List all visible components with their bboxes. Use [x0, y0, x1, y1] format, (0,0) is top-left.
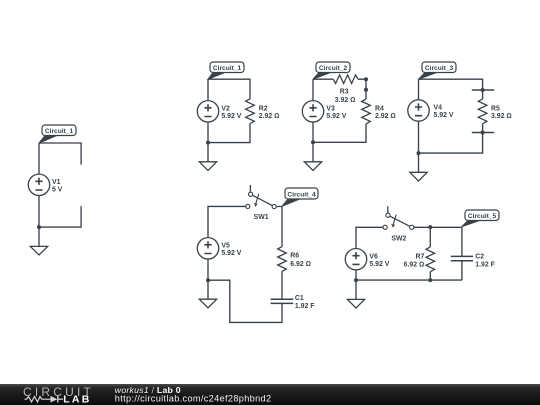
label callout Circuit_1 (A): [39, 125, 76, 143]
label callout Circuit_1 (B): [208, 62, 244, 79]
node: Circuit B ground junction: [206, 141, 210, 145]
svg-text:V1: V1: [52, 179, 61, 186]
svg-text:SW2: SW2: [391, 236, 406, 243]
svg-text:Circuit_1: Circuit_1: [45, 128, 74, 135]
ground (Circuit C): [304, 162, 321, 171]
svg-text:V5: V5: [221, 242, 230, 249]
svg-text:R5: R5: [491, 105, 500, 112]
node: Circuit C ground junction: [311, 140, 315, 144]
svg-text:5.92 V: 5.92 V: [369, 261, 389, 268]
node: Circuit A ground junction: [37, 225, 41, 229]
svg-text:6.92 Ω: 6.92 Ω: [290, 261, 311, 268]
node: Circuit F junctions: [354, 225, 432, 282]
ground (Circuit A): [30, 246, 47, 255]
svg-text:2.92 Ω: 2.92 Ω: [375, 113, 396, 120]
logo resistor+diode glyph: [25, 396, 64, 403]
svg-text:3.92 Ω: 3.92 Ω: [335, 97, 356, 104]
wire: stub at R5 bottom: [472, 131, 494, 135]
svg-text:1.92 F: 1.92 F: [295, 303, 315, 310]
ground (Circuit F): [347, 299, 364, 308]
voltage source V5 5.92 V: [197, 238, 241, 259]
svg-text:SW1: SW1: [254, 214, 269, 221]
svg-text:V3: V3: [326, 105, 335, 112]
svg-text:R3: R3: [340, 89, 349, 96]
resistor R4 2.92 Ω: [362, 99, 396, 124]
svg-text:V2: V2: [221, 105, 230, 112]
svg-text:Circuit_4: Circuit_4: [287, 191, 316, 198]
ground (Circuit B): [199, 162, 216, 171]
label callout Circuit_5: [462, 210, 499, 227]
wire: Circuit A left/top/bottom/right loop: [39, 143, 81, 246]
voltage source V2 5.92 V: [197, 101, 241, 122]
svg-text:R6: R6: [290, 253, 299, 260]
svg-text:V6: V6: [369, 253, 378, 260]
svg-text:http://circuitlab.com/c24ef28p: http://circuitlab.com/c24ef28phbnd2: [115, 393, 272, 403]
switch SW2: [383, 206, 414, 242]
svg-text:LAB: LAB: [63, 393, 91, 405]
resistor R5 3.92 Ω: [478, 99, 511, 124]
resistor R6 6.92 Ω: [278, 247, 311, 272]
svg-text:V4: V4: [434, 105, 443, 112]
resistor R2 2.92 Ω: [246, 99, 280, 124]
ground (Circuit E): [199, 299, 216, 308]
ground (Circuit D): [410, 172, 427, 181]
svg-text:Circuit_2: Circuit_2: [319, 65, 348, 72]
wire: Circuit E top and left: [208, 206, 282, 322]
svg-text:Circuit_5: Circuit_5: [468, 213, 497, 220]
svg-text:C2: C2: [475, 254, 484, 261]
wire: Circuit F top and left: [356, 227, 462, 299]
capacitor C1 1.92 F: [271, 295, 315, 310]
node: R3-R4 corner junctions: [364, 77, 368, 92]
wire: Circuit C loop: [313, 79, 366, 162]
svg-text:R2: R2: [259, 105, 268, 112]
wire: stub at R5 top: [472, 88, 494, 92]
svg-text:2.92 Ω: 2.92 Ω: [259, 113, 280, 120]
capacitor C2 1.92 F: [451, 254, 495, 269]
node: Circuit E ground junction: [206, 278, 210, 282]
svg-text:5.92 V: 5.92 V: [326, 113, 346, 120]
svg-text:5 V: 5 V: [52, 186, 63, 193]
voltage source V1 5 V: [28, 174, 62, 195]
resistor R3 3.92 Ω (horizontal): [333, 75, 358, 104]
wire: Circuit D loop: [419, 79, 483, 172]
svg-text:5.92 V: 5.92 V: [434, 112, 454, 119]
svg-text:Circuit_1: Circuit_1: [213, 65, 242, 72]
svg-text:6.92 Ω: 6.92 Ω: [404, 261, 425, 268]
voltage source V6 5.92 V: [345, 249, 389, 270]
label callout Circuit_3: [419, 62, 457, 79]
svg-text:R7: R7: [415, 254, 424, 261]
svg-text:5.92 V: 5.92 V: [221, 250, 241, 257]
svg-text:1.92 F: 1.92 F: [475, 261, 495, 268]
label callout Circuit_4: [282, 188, 318, 206]
voltage source V3 5.92 V: [302, 101, 346, 122]
svg-text:5.92 V: 5.92 V: [221, 113, 241, 120]
label callout Circuit_2: [313, 62, 350, 79]
node: Circuit D ground junction: [417, 151, 421, 155]
wire: Circuit B loop: [208, 79, 250, 162]
svg-text:R4: R4: [375, 105, 384, 112]
voltage source V4 5.92 V: [408, 100, 454, 121]
resistor R7 6.92 Ω: [404, 247, 435, 272]
svg-text:3.92 Ω: 3.92 Ω: [491, 113, 512, 120]
CircuitLab logo wordmark: [23, 385, 94, 405]
footer title text: [115, 385, 272, 404]
svg-text:Circuit_3: Circuit_3: [425, 65, 454, 72]
svg-text:C1: C1: [295, 295, 304, 302]
switch SW1: [246, 185, 277, 221]
